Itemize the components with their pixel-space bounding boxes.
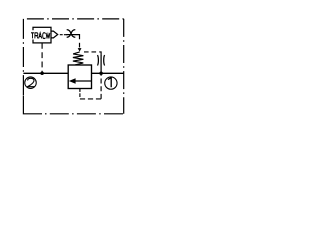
- component enclosure: solid bottom-left corner: [23, 96, 42, 114]
- white label patch over box left edge: [31, 30, 50, 39]
- main valve box: [68, 65, 91, 89]
- junction node right: [99, 72, 103, 76]
- poppet flow arrow (points left): [75, 80, 92, 82]
- chevron arrow on adjust box: [51, 31, 58, 38]
- port 1 symbol: [105, 77, 117, 89]
- arrow onto spring: [78, 48, 82, 52]
- wire: through X1 to corner, down: [66, 35, 79, 40]
- wire: solid corner into orifice branch: [99, 52, 101, 55]
- wire: vertical through orifice X2 to junction: [100, 55, 102, 73]
- component enclosure: right edge (dash-dot): [123, 19, 125, 114]
- spring: [73, 52, 84, 65]
- main line port 2 side: [23, 72, 68, 74]
- adjust box: [33, 27, 51, 43]
- needle valve X1 (top, crossed curves): [67, 30, 76, 38]
- main line port 1 side: [92, 72, 124, 74]
- drain: stub below box: [79, 89, 81, 92]
- drain: dashed rise to junction: [100, 73, 102, 99]
- drain: dashed down: [79, 93, 81, 99]
- component enclosure: bottom edge (dash-dot): [45, 113, 124, 115]
- junction node left: [40, 72, 44, 76]
- pilot dashed line y=51.9 to right: [84, 51, 97, 53]
- pilot dashed line to needle valve X1: [60, 34, 67, 36]
- drain: dashed bottom run: [80, 98, 101, 100]
- adjust box label TRACW (drawn as strokes): [31, 33, 50, 39]
- dashed vent line from adjust box: [41, 43, 43, 73]
- orifice X2 (facing arcs): [98, 55, 105, 65]
- port 2 symbol: [25, 77, 37, 89]
- wire: dash drop to spring arrow: [79, 43, 81, 48]
- component enclosure: left edge (dash-dot): [22, 19, 24, 96]
- component enclosure: top edge (dash-dot): [27, 18, 124, 20]
